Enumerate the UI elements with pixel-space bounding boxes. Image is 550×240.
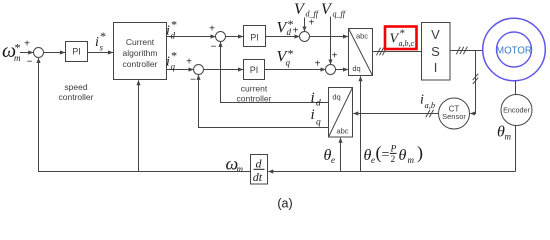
svg-text:q: q xyxy=(316,118,321,128)
wire i_ab from CT sensor to abc-dq block xyxy=(353,113,438,115)
encoder xyxy=(501,95,532,126)
svg-text:algorithm: algorithm xyxy=(123,48,158,58)
label V_d_ff xyxy=(294,1,320,19)
svg-text:2: 2 xyxy=(391,155,396,165)
svg-text:dt: dt xyxy=(253,170,263,184)
wire dq-abc block to VSI xyxy=(373,51,422,53)
svg-text:*: * xyxy=(100,29,106,43)
svg-text:+: + xyxy=(332,51,338,62)
svg-text:e: e xyxy=(371,155,375,165)
label theta_e xyxy=(324,147,336,165)
svg-text:I: I xyxy=(434,60,438,75)
svg-text:controller: controller xyxy=(123,59,158,69)
svg-text:+: + xyxy=(24,39,30,50)
wire motor shaft to encoder xyxy=(515,81,517,95)
label current controller xyxy=(237,84,272,104)
PI block d-axis current xyxy=(244,26,266,47)
motor (outer and inner circles) xyxy=(483,18,546,81)
block dq to abc transform xyxy=(349,29,373,76)
svg-text:+: + xyxy=(209,24,215,35)
svg-text:m: m xyxy=(14,53,21,63)
svg-text:dq: dq xyxy=(352,64,360,73)
svg-text:Current: Current xyxy=(126,37,155,47)
svg-text:d: d xyxy=(256,157,263,171)
svg-text:i: i xyxy=(166,55,170,70)
svg-text:abc: abc xyxy=(356,32,368,41)
svg-text:+: + xyxy=(309,18,315,29)
wire V_q_ff into S5 top xyxy=(330,17,332,65)
slash marks on CT branch wire xyxy=(473,74,478,84)
svg-text:current: current xyxy=(241,84,268,94)
svg-text:controller: controller xyxy=(59,92,94,102)
label i_ab xyxy=(420,93,435,111)
svg-text:V: V xyxy=(431,27,440,42)
svg-text:−: − xyxy=(211,42,217,53)
svg-text:Sensor: Sensor xyxy=(442,112,466,121)
svg-text:i: i xyxy=(95,35,99,50)
wire S2 to PI d xyxy=(225,36,243,38)
summing junction S3 (q current) xyxy=(194,65,204,75)
svg-text:i: i xyxy=(420,93,424,108)
label theta_e (= P/2 theta_m) xyxy=(364,143,424,166)
svg-text:q_ff: q_ff xyxy=(333,10,347,19)
svg-text:i: i xyxy=(166,24,170,39)
svg-text:MOTOR: MOTOR xyxy=(496,45,532,56)
block current algorithm controller xyxy=(114,23,167,80)
svg-text:a,b,c: a,b,c xyxy=(399,39,415,48)
label V_q* xyxy=(277,47,294,68)
svg-text:s: s xyxy=(100,43,104,53)
wire PI speed to current algorithm controller, node i_s* xyxy=(88,52,114,54)
wire encoder down to bottom feedback line xyxy=(515,126,517,172)
svg-text:m: m xyxy=(237,164,244,174)
svg-text:d: d xyxy=(171,31,176,41)
svg-text:d: d xyxy=(287,27,292,37)
svg-text:speed: speed xyxy=(64,82,87,92)
svg-text:*: * xyxy=(399,28,405,40)
three-phase slash marks on VSI input wire xyxy=(377,48,387,56)
wire i_q* from controller to summing junction S3 xyxy=(167,69,194,71)
svg-text:abc: abc xyxy=(336,127,348,136)
svg-text:+: + xyxy=(315,59,321,70)
label i_d* xyxy=(166,18,177,41)
wire S3 to PI q xyxy=(203,69,243,71)
svg-text:m: m xyxy=(408,155,415,165)
svg-text:a,b: a,b xyxy=(425,100,436,110)
summing junction S2 (d current) xyxy=(216,32,226,42)
label i_q feedback xyxy=(311,107,322,128)
PI block q-axis current xyxy=(244,60,265,80)
svg-text:+: + xyxy=(186,57,192,68)
summing junction S1 (speed) xyxy=(34,48,44,58)
svg-text:(a): (a) xyxy=(277,197,292,211)
wire S1 to PI speed xyxy=(43,52,65,54)
svg-text:q: q xyxy=(171,62,176,72)
svg-text:−: − xyxy=(190,75,196,86)
svg-text:i: i xyxy=(311,90,315,106)
svg-text:dq: dq xyxy=(332,93,340,102)
svg-text:+: + xyxy=(293,26,299,37)
wire d/dt output to speed summing junction xyxy=(39,58,251,172)
wire i_d* from controller to summing junction S2 xyxy=(167,36,216,38)
block abc to dq transform xyxy=(329,88,353,138)
label i_s* xyxy=(95,29,106,53)
PI block speed controller xyxy=(66,42,88,62)
summing junction S5 (V_q) xyxy=(326,65,336,75)
label speed controller xyxy=(59,82,94,102)
svg-text:q: q xyxy=(286,58,291,68)
label omega_m at d/dt output xyxy=(226,154,244,175)
svg-text:θ: θ xyxy=(399,147,407,164)
wire V_q* from PI q to summing junction S5 xyxy=(265,69,326,71)
node omega_m_ref label xyxy=(2,40,21,63)
svg-text:−: − xyxy=(27,57,33,68)
CT sensor xyxy=(439,98,470,129)
wire CT sensor branch from motor wire xyxy=(470,51,475,114)
svg-text:PI: PI xyxy=(250,65,259,75)
svg-text:V: V xyxy=(294,1,306,18)
bottom feedback wire theta_m into d/dt xyxy=(268,171,515,173)
svg-text:e: e xyxy=(331,155,335,165)
svg-text:*: * xyxy=(171,18,177,32)
svg-text:PI: PI xyxy=(250,33,259,43)
svg-text:PI: PI xyxy=(72,47,81,57)
wire omega_m_ref to speed summing junction xyxy=(20,52,33,54)
wire branch omega_m up into current algorithm controller xyxy=(138,80,140,171)
label V_d* xyxy=(277,17,294,37)
wire V_d_ff into S4 top xyxy=(304,18,306,32)
wire V_d* from PI d to summing junction S4 xyxy=(266,36,300,38)
wire theta_e branch up into dq-abc block xyxy=(360,76,362,171)
svg-text:): ) xyxy=(417,143,423,164)
svg-text:*: * xyxy=(171,49,177,63)
label V_q_ff xyxy=(321,1,347,19)
label theta_m xyxy=(497,124,512,142)
svg-text:V: V xyxy=(321,1,333,18)
wire i_d feedback from abc-dq block to S2 xyxy=(221,42,329,103)
wire theta_e branch up into abc-dq block xyxy=(340,138,342,172)
slash marks on i_ab wire xyxy=(426,110,434,118)
svg-text:d: d xyxy=(316,99,321,109)
block VSI xyxy=(422,23,451,81)
svg-text:S: S xyxy=(431,44,440,59)
wire S4 to dq-abc block xyxy=(309,36,348,38)
block d/dt xyxy=(251,155,268,185)
svg-text:i: i xyxy=(311,107,315,123)
summing junction S4 (V_d) xyxy=(300,32,310,42)
svg-text:=: = xyxy=(382,148,390,163)
svg-text:m: m xyxy=(505,132,512,142)
wire S5 to dq-abc block xyxy=(335,69,348,71)
label i_q* xyxy=(166,49,177,72)
wire VSI to motor xyxy=(450,50,483,52)
red highlighted node V_abc* xyxy=(385,27,417,50)
three-phase slash marks on motor wire xyxy=(456,47,467,55)
wire i_q feedback from abc-dq block to S3 xyxy=(199,75,329,128)
label i_d feedback xyxy=(311,90,322,109)
svg-text:Encoder: Encoder xyxy=(503,106,530,115)
